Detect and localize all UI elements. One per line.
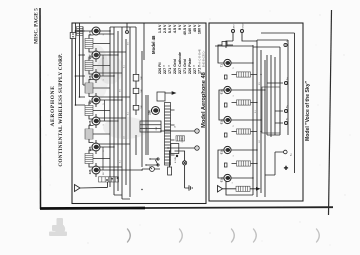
wire right riser <box>110 26 136 28</box>
wire coil up <box>232 102 237 104</box>
wire coil drop <box>93 43 110 45</box>
wire bracket up <box>265 174 275 176</box>
svg-text:.5: .5 <box>103 102 105 105</box>
wire coil up <box>232 74 237 76</box>
junction <box>113 99 114 100</box>
svg-text:4.5 V: 4.5 V <box>173 24 177 33</box>
svg-text:.5: .5 <box>103 149 105 152</box>
svg-text:180 V: 180 V <box>198 24 202 34</box>
post GND <box>240 29 243 32</box>
tap junction <box>111 178 113 180</box>
wire rheostat <box>142 168 160 170</box>
wire plate lead <box>95 163 97 167</box>
bus wire panel2 <box>260 50 262 193</box>
junction <box>109 120 110 121</box>
junction <box>141 189 142 190</box>
upper wire 2 <box>79 23 81 97</box>
wire coil-plate <box>89 57 94 61</box>
bus wire panel2 <box>274 57 276 135</box>
junction heavy <box>176 155 178 157</box>
post extra <box>284 43 287 46</box>
post B+ <box>284 109 287 112</box>
bus wire panel2 <box>252 45 254 195</box>
bleed-through mark <box>180 229 183 242</box>
bleed-through mark <box>317 229 320 242</box>
svg-text:1.5 V: 1.5 V <box>158 24 162 33</box>
svg-text:280: 280 <box>147 110 151 115</box>
wire coil drop <box>93 110 110 112</box>
wire grid lead <box>95 103 97 107</box>
wire left riser <box>114 194 122 196</box>
tube V4 227 <box>88 96 100 104</box>
bleed-through mark <box>232 229 235 242</box>
wire coil-grid <box>89 139 94 143</box>
bus wire <box>109 27 111 187</box>
wire coil-grid <box>89 71 94 75</box>
bus wire near table <box>143 23 145 60</box>
svg-text:0.5: 0.5 <box>120 88 122 92</box>
bus wire panel2 <box>266 55 268 135</box>
wire coil down <box>251 74 258 76</box>
svg-text:AEROPHONE: AEROPHONE <box>50 85 56 126</box>
svg-text:2.5 V: 2.5 V <box>163 24 167 33</box>
RF transformer T2 <box>85 129 93 139</box>
junction <box>113 75 114 76</box>
svg-text:10: 10 <box>175 126 177 128</box>
svg-text:A+: A+ <box>290 153 293 156</box>
upper wire drops <box>76 85 86 105</box>
panel 1 border (Model Aerophone 48) <box>72 23 206 204</box>
wire link <box>104 100 106 121</box>
RF coil panel2 L4 <box>237 100 251 105</box>
wire coil-grid <box>89 49 94 53</box>
wire grid lead <box>95 150 97 154</box>
antenna panel1 <box>75 185 108 192</box>
post A+ <box>284 81 287 84</box>
junction <box>109 146 110 147</box>
junction <box>109 30 110 31</box>
battery bracket <box>275 150 287 175</box>
wire coil-grid <box>89 93 94 97</box>
terminal dot <box>72 36 73 37</box>
bus wire panel2 <box>256 40 258 197</box>
wire ant tap <box>225 181 227 189</box>
upper wire drops 2 <box>76 31 86 76</box>
wire tube drop 2 <box>99 51 126 53</box>
svg-text:B+90 B+135 C+: B+90 B+135 C+ <box>204 50 206 67</box>
tube V5 226 <box>88 72 100 80</box>
svg-text:227 Cathode: 227 Cathode <box>178 52 182 74</box>
svg-text:Model "Voice of the Sky": Model "Voice of the Sky" <box>305 80 311 141</box>
svg-text:0.1: 0.1 <box>255 109 257 113</box>
footer rule <box>329 10 332 215</box>
junction <box>149 158 150 159</box>
svg-text:227 ”: 227 ” <box>193 65 197 74</box>
rectifier tube 280 <box>147 107 159 115</box>
wire tube drop panel2 <box>231 149 257 151</box>
wire <box>169 151 171 167</box>
svg-text:GND: GND <box>243 23 245 28</box>
svg-text:226 Plate: 226 Plate <box>188 58 192 74</box>
wire left bus riser <box>122 198 130 200</box>
tube V1 226 <box>88 166 100 174</box>
wire plate lead <box>95 69 97 73</box>
svg-text:C-: C- <box>287 39 289 42</box>
wire grid lead <box>95 173 97 177</box>
RF coil panel2 L2 <box>237 161 251 166</box>
RF coil panel2 L3 <box>237 129 251 134</box>
svg-text:.5: .5 <box>233 66 235 69</box>
wire coil-plate <box>89 80 94 84</box>
post ANT <box>231 29 234 32</box>
junction upper <box>75 30 77 32</box>
wire tube drop panel2 <box>231 177 253 179</box>
svg-text:ANT: ANT <box>233 23 236 28</box>
wire tube drop <box>99 30 110 32</box>
svg-text:226 Fil: 226 Fil <box>158 63 162 74</box>
tube panel2 V1 <box>220 174 231 182</box>
bus wire <box>135 27 137 115</box>
wire coil down <box>251 131 258 133</box>
header rule <box>39 8 42 209</box>
wire tube drop 2 <box>99 33 114 35</box>
tap junction <box>117 177 119 179</box>
junction upper <box>75 75 77 77</box>
junction <box>113 75 114 76</box>
wire post to border <box>126 23 128 31</box>
component box <box>157 92 165 101</box>
junction <box>167 147 168 148</box>
tube V2 226 <box>88 143 100 151</box>
output transformer <box>77 27 84 36</box>
tube panel2 V2 <box>220 146 231 154</box>
panel 2 border (Voice of the Sky) <box>209 23 303 201</box>
svg-text:1MF: 1MF <box>141 104 143 109</box>
svg-text:OUT: OUT <box>182 138 184 143</box>
bus wire <box>125 39 127 185</box>
junction panel2 <box>260 131 261 132</box>
wire stub <box>95 117 97 119</box>
wire post elbow <box>226 41 233 48</box>
svg-text:171 ”: 171 ” <box>168 65 172 74</box>
wire coil-plate <box>89 150 94 154</box>
terminal dot <box>72 33 73 34</box>
RF transformer T4 <box>85 83 93 93</box>
RF transformer T5 <box>85 61 93 71</box>
RF coil panel2 L5 <box>237 72 251 77</box>
wire tube drop panel2 <box>231 89 265 91</box>
wire grid lead <box>95 124 97 128</box>
wire right side riser <box>215 45 253 47</box>
wire post riser <box>267 82 283 84</box>
rheostat <box>150 167 155 172</box>
svg-text:227: 227 <box>103 171 105 175</box>
tube V3 226 <box>88 117 100 125</box>
wire grid lead <box>95 79 97 83</box>
junction <box>256 149 257 150</box>
svg-text:2MF: 2MF <box>141 75 143 80</box>
paper speckle <box>45 10 350 245</box>
svg-text:0.5: 0.5 <box>259 81 261 85</box>
upper wire 3 <box>82 27 84 85</box>
junction <box>252 62 253 63</box>
wire tube drop <box>99 75 114 77</box>
wire coil-grid <box>89 116 94 120</box>
junction upper <box>75 104 77 106</box>
bus wire extra <box>147 95 149 155</box>
junction <box>169 150 170 151</box>
output box <box>171 144 179 154</box>
wire tube drop <box>99 120 118 122</box>
loop vert2 <box>257 39 288 41</box>
RF transformer T3 <box>85 106 93 116</box>
svg-text:0.1: 0.1 <box>120 159 122 163</box>
svg-text:.5: .5 <box>233 124 235 127</box>
voltage table Model 48 <box>151 24 202 74</box>
wire plate lead <box>95 93 97 97</box>
wire tube drop 2 <box>99 117 126 119</box>
junction <box>252 177 253 178</box>
upper wire 1 <box>75 23 77 105</box>
svg-text:140 V: 140 V <box>188 24 192 34</box>
filter condenser block <box>140 121 161 132</box>
wire link <box>102 147 104 170</box>
bus wire panel2 <box>264 60 266 197</box>
loop wires <box>280 33 295 173</box>
junction <box>264 89 265 90</box>
antenna coil L1 <box>99 177 119 182</box>
svg-text:.1: .1 <box>232 181 234 184</box>
wire tube drop <box>99 99 122 101</box>
bus wire panel2 <box>270 55 272 137</box>
wire coil to gnd <box>250 188 256 190</box>
condenser C1 <box>133 105 139 110</box>
wire coil up <box>232 163 237 165</box>
junction <box>121 99 122 100</box>
svg-text:Model 48: Model 48 <box>151 35 156 54</box>
bus wire <box>117 31 119 191</box>
wire tube drop 2 <box>99 72 122 74</box>
svg-text:5.0 V: 5.0 V <box>168 24 172 33</box>
wire plate lead <box>95 140 97 144</box>
grid condenser <box>224 163 227 167</box>
grid condenser <box>224 75 227 79</box>
wire coil-plate <box>89 102 94 106</box>
terminal post right <box>126 31 129 34</box>
scan smudge 3 <box>85 45 109 101</box>
wire tube drop <box>99 54 118 56</box>
wire coil drop <box>93 158 110 160</box>
scan smudge <box>103 117 149 139</box>
tube panel2 V5 <box>220 59 231 67</box>
junction <box>260 119 261 120</box>
svg-text:0.1: 0.1 <box>128 111 130 115</box>
svg-text:1MF: 1MF <box>141 88 143 93</box>
pilot lamp <box>183 161 187 165</box>
wire grid link 2 <box>219 90 224 120</box>
junction panel2 <box>260 74 261 75</box>
antenna condenser <box>222 42 227 47</box>
junction <box>160 130 161 131</box>
svg-text:0.1: 0.1 <box>124 64 126 68</box>
svg-text:B-: B- <box>287 117 289 120</box>
speaker terminal box <box>70 33 76 39</box>
wire ant to coil <box>107 182 109 187</box>
bleeder resistor comb <box>165 103 175 166</box>
wire stub <box>95 166 97 168</box>
junction <box>113 146 114 147</box>
ghost blob (bleed-through) <box>49 218 67 236</box>
junction <box>141 169 142 170</box>
svg-text:9 V: 9 V <box>178 24 182 30</box>
svg-text:Model Aerophone 48: Model Aerophone 48 <box>201 72 207 128</box>
wire lamp run <box>175 151 185 188</box>
junction panel2 <box>256 102 257 103</box>
wire coil drop <box>93 133 110 135</box>
wire post risers <box>275 111 283 123</box>
bus wire <box>129 27 131 197</box>
wire grid lead <box>95 58 97 62</box>
junction <box>109 30 110 31</box>
junction <box>113 169 114 170</box>
wire coil-plate <box>89 35 94 39</box>
wire coil down <box>251 163 258 165</box>
wire stub <box>95 96 97 98</box>
junction upper <box>79 54 81 56</box>
wire posts <box>233 33 257 41</box>
condenser C2 <box>133 88 139 93</box>
junction <box>109 54 110 55</box>
wire tube drop panel2 <box>231 119 261 121</box>
ground arrow <box>256 187 261 191</box>
wire plate lead <box>95 48 97 52</box>
RF transformer T1 <box>85 154 93 164</box>
svg-text:1.0: 1.0 <box>259 139 261 143</box>
wire plate lead <box>95 114 97 118</box>
svg-text:226: 226 <box>88 120 92 125</box>
wire stub <box>95 33 97 35</box>
svg-text:A+: A+ <box>286 76 289 80</box>
junction upper <box>79 96 81 98</box>
bus wire <box>141 51 143 167</box>
wire jack risers <box>161 131 195 148</box>
arrow connector <box>159 92 176 95</box>
power unit box <box>262 87 280 133</box>
svg-text:226 Grid: 226 Grid <box>173 58 177 74</box>
bleed-through mark <box>128 229 131 242</box>
bus wire <box>121 27 123 199</box>
wire tube drop <box>99 146 114 148</box>
resistor R bias <box>168 167 172 175</box>
tube V6 227 <box>88 51 100 59</box>
antenna coil panel2 <box>236 186 250 191</box>
post B- <box>284 121 287 124</box>
loop vert3 <box>261 33 295 135</box>
bus wire <box>113 27 115 195</box>
junction <box>117 54 118 55</box>
filter choke <box>176 136 185 141</box>
wire tube drop 2 <box>99 166 122 168</box>
wire tube drop panel2 <box>231 62 253 64</box>
svg-text:40.5 V: 40.5 V <box>183 24 187 35</box>
svg-text:B+: B+ <box>287 104 289 108</box>
junction panel2 <box>256 163 257 164</box>
page left border (scan edge) <box>40 207 145 210</box>
plus mark <box>284 166 288 170</box>
svg-text:.1: .1 <box>233 154 235 157</box>
switch <box>155 158 159 166</box>
svg-text:MISC. PAGE 5: MISC. PAGE 5 <box>34 8 40 44</box>
wire tube drop 2 <box>99 96 130 98</box>
svg-text:.1: .1 <box>233 94 235 97</box>
antenna panel2 <box>218 186 237 193</box>
svg-text:227 ”: 227 ” <box>163 65 167 74</box>
wire grid link 3 <box>218 45 233 63</box>
RF transformer T6 <box>85 39 93 49</box>
svg-text:.1: .1 <box>103 33 105 36</box>
scan smudge 2 <box>97 54 123 84</box>
wire coil drop <box>93 65 110 67</box>
svg-text:0.5: 0.5 <box>128 41 130 45</box>
wire stub <box>95 72 97 74</box>
wire coil down <box>251 102 258 104</box>
loop vert <box>253 46 280 48</box>
wire coil up <box>232 131 237 133</box>
junction <box>145 164 146 165</box>
wire tube drop <box>99 169 142 171</box>
svg-text:CONTINENTAL WIRELESS SUPPLY CO: CONTINENTAL WIRELESS SUPPLY CORP. <box>58 53 64 167</box>
bus wire <box>135 135 137 155</box>
grid condenser <box>224 133 227 137</box>
wire coil-plate <box>89 126 94 130</box>
svg-text:226: 226 <box>88 169 92 174</box>
wire link <box>102 55 104 76</box>
wire stub <box>95 51 97 53</box>
svg-text:4 OHM: 4 OHM <box>175 157 177 163</box>
bus wire <box>145 95 147 155</box>
tap junction <box>106 179 108 181</box>
svg-text:226: 226 <box>88 146 92 151</box>
grid condenser <box>224 103 227 107</box>
wire coil-grid <box>89 164 94 168</box>
svg-text:1.0: 1.0 <box>124 135 126 139</box>
condenser C3 <box>133 74 139 81</box>
svg-text:.1: .1 <box>103 123 105 126</box>
junction <box>117 120 118 121</box>
svg-text:71: 71 <box>220 64 224 68</box>
tube panel2 V4 <box>220 86 231 94</box>
wire tube drop 2 <box>99 143 130 145</box>
tube panel2 V3 <box>220 116 231 124</box>
svg-text:45 V: 45 V <box>193 24 197 32</box>
wire gnd bus up <box>226 189 253 195</box>
tube V7 171 <box>88 27 100 35</box>
bleed-through mark <box>254 229 257 242</box>
ground symbol <box>185 185 193 191</box>
wire stub <box>95 143 97 145</box>
wire grid link <box>218 150 224 178</box>
wire coil drop <box>93 87 110 89</box>
wire switch <box>146 159 158 165</box>
output jack <box>195 129 199 133</box>
svg-text:171 Grid: 171 Grid <box>183 58 187 74</box>
wire to output tube <box>83 30 93 32</box>
output jack <box>195 146 199 150</box>
svg-text:171 ”: 171 ” <box>198 65 202 74</box>
